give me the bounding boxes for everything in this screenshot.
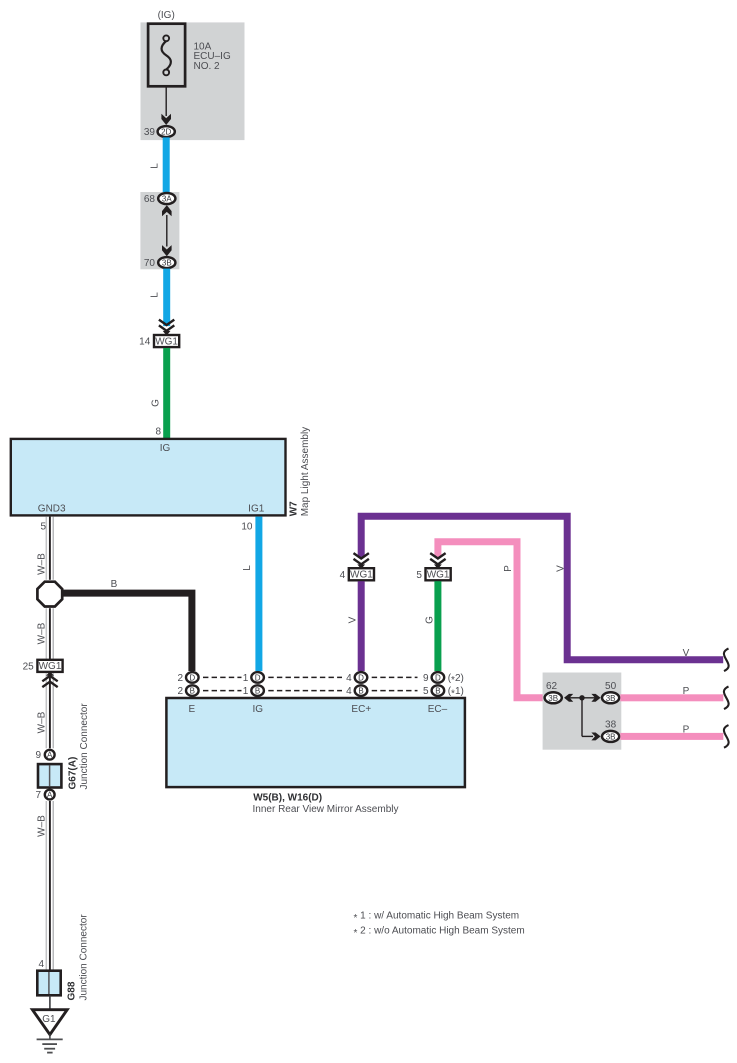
connector D pin 1 (IG) bbox=[243, 672, 264, 684]
fuse 10A ECU-IG NO. 2 bbox=[148, 24, 231, 87]
svg-text:W–B: W–B bbox=[37, 711, 48, 733]
connector WG1 pin 5 bbox=[416, 568, 450, 581]
splice octagon bbox=[37, 582, 62, 607]
wire W-B GND3 to splice bbox=[46, 517, 53, 580]
wire G (green) WG1 to EC- bbox=[434, 581, 441, 671]
svg-text:Inner Rear View Mirror Assembl: Inner Rear View Mirror Assembly bbox=[253, 804, 399, 815]
svg-text:1: 1 bbox=[243, 673, 249, 684]
dashes IG to EC+ bbox=[268, 676, 342, 678]
svg-text:2: 2 bbox=[177, 686, 183, 697]
svg-text:WG1: WG1 bbox=[427, 570, 450, 581]
svg-text:D: D bbox=[189, 673, 195, 682]
svg-text:A: A bbox=[47, 751, 53, 760]
svg-text:V: V bbox=[348, 616, 359, 623]
Map Light Assembly box W7 bbox=[11, 439, 286, 516]
wire W-B splice to WG1 25 bbox=[46, 608, 53, 659]
svg-text:P: P bbox=[503, 565, 514, 572]
connector 3B pin 70 bbox=[144, 257, 176, 269]
connector B pin 2 (E) bbox=[177, 685, 198, 697]
svg-text:D: D bbox=[255, 673, 261, 682]
wire L (blue) 2D to 3A bbox=[163, 137, 170, 192]
svg-text:B: B bbox=[190, 687, 195, 696]
dashes EC+ to EC- bbox=[372, 676, 418, 678]
wire from fuse to 2D bbox=[165, 87, 167, 116]
svg-text:4: 4 bbox=[346, 673, 352, 684]
svg-text:38: 38 bbox=[605, 720, 617, 731]
svg-text:G: G bbox=[425, 616, 436, 624]
svg-text:62: 62 bbox=[546, 681, 558, 692]
svg-text:NO. 2: NO. 2 bbox=[194, 61, 221, 72]
svg-text:10: 10 bbox=[241, 521, 253, 532]
svg-text:7: 7 bbox=[35, 790, 41, 801]
svg-text:70: 70 bbox=[144, 258, 156, 269]
wire G (green) WG1 to map light bbox=[163, 348, 170, 439]
wire P (pink) 38 to right bbox=[620, 733, 723, 740]
svg-text:W–B: W–B bbox=[37, 553, 48, 575]
fuse block gray background bbox=[141, 22, 245, 140]
connector WG1 pin 25 bbox=[23, 660, 63, 673]
chevron arrows into WG1 14 bbox=[159, 320, 174, 336]
svg-text:IG1: IG1 bbox=[248, 503, 265, 514]
svg-text:W–B: W–B bbox=[37, 815, 48, 837]
svg-text:4: 4 bbox=[346, 686, 352, 697]
svg-text:3B: 3B bbox=[548, 694, 558, 703]
svg-text:L: L bbox=[150, 292, 161, 298]
svg-text:2: 2 bbox=[177, 673, 183, 684]
svg-text:4: 4 bbox=[38, 959, 44, 970]
svg-text:(IG): (IG) bbox=[158, 10, 175, 21]
svg-text:G88: G88 bbox=[66, 981, 77, 1000]
wire B (black) splice to E pin bbox=[62, 593, 192, 671]
svg-text:WG1: WG1 bbox=[155, 336, 178, 347]
break symbol P wire 2 bbox=[724, 725, 729, 748]
svg-text:W5(B), W16(D): W5(B), W16(D) bbox=[253, 793, 322, 804]
svg-text:Junction Connector: Junction Connector bbox=[78, 914, 89, 1001]
svg-text:3B: 3B bbox=[606, 733, 616, 742]
svg-text:IG: IG bbox=[160, 443, 171, 454]
break symbol P wire 1 bbox=[724, 687, 729, 710]
svg-text:W–B: W–B bbox=[37, 622, 48, 644]
svg-text:D: D bbox=[358, 673, 364, 682]
chevron arrows into WG1 4 bbox=[354, 553, 369, 569]
svg-text:V: V bbox=[555, 565, 566, 572]
wire P (pink) 50 to right bbox=[620, 694, 723, 701]
svg-text:B: B bbox=[111, 579, 118, 590]
connector B pin 5 (EC-) bbox=[423, 685, 464, 699]
chevron arrows out of WG1 25 bbox=[42, 671, 57, 687]
chevron arrows into WG1 5 bbox=[430, 553, 445, 569]
svg-text:L: L bbox=[242, 565, 253, 571]
arrows between 3A and 3B bbox=[162, 205, 172, 256]
svg-text:2D: 2D bbox=[161, 128, 171, 137]
svg-text:D: D bbox=[435, 673, 441, 682]
Inner Rear View Mirror Assembly box bbox=[166, 698, 465, 787]
svg-text:68: 68 bbox=[144, 194, 156, 205]
connector 9 A bbox=[35, 750, 54, 761]
dashes E to IG bbox=[203, 676, 242, 678]
svg-text:WG1: WG1 bbox=[39, 661, 62, 672]
svg-text:3B: 3B bbox=[606, 694, 616, 703]
gray background 3A/3B bbox=[140, 192, 179, 269]
svg-text:Map Light Assembly: Map Light Assembly bbox=[300, 427, 311, 517]
wire L (blue) 3B to WG1 bbox=[163, 269, 170, 327]
connector D pin 4 (EC+) bbox=[346, 672, 367, 684]
connector 3A pin 68 bbox=[144, 193, 176, 205]
svg-text:Junction Connector: Junction Connector bbox=[79, 703, 90, 790]
svg-text:9: 9 bbox=[35, 750, 41, 761]
junction connector G67(A) bbox=[38, 764, 61, 787]
svg-text:25: 25 bbox=[23, 661, 35, 672]
svg-text:5: 5 bbox=[40, 521, 46, 532]
svg-text:3B: 3B bbox=[162, 259, 172, 268]
connector WG1 pin 14 bbox=[139, 335, 179, 348]
connector B pin 1 (IG) bbox=[243, 685, 264, 697]
svg-text:14: 14 bbox=[139, 337, 151, 348]
svg-text:P: P bbox=[683, 686, 690, 697]
connector 3B pin 62 bbox=[545, 681, 562, 703]
wire V (purple) WG1 to EC+ bbox=[358, 581, 365, 671]
svg-text:9: 9 bbox=[423, 673, 429, 684]
junction connector G88 bbox=[37, 971, 60, 996]
svg-text:G1: G1 bbox=[42, 1014, 56, 1025]
svg-text:5: 5 bbox=[416, 570, 422, 581]
svg-text:5: 5 bbox=[423, 686, 429, 697]
wire W-B 7A to G88 bbox=[46, 801, 53, 971]
connector 2D pin 39 bbox=[144, 126, 175, 138]
svg-text:E: E bbox=[188, 704, 195, 715]
svg-text:V: V bbox=[683, 648, 690, 659]
svg-text:L: L bbox=[150, 163, 161, 169]
svg-text:B: B bbox=[435, 687, 440, 696]
svg-text:A: A bbox=[47, 791, 53, 800]
break symbol V wire bbox=[724, 649, 729, 672]
svg-text:IG: IG bbox=[253, 704, 264, 715]
svg-text:8: 8 bbox=[155, 427, 161, 438]
wire G88 to ground bbox=[49, 996, 51, 1011]
svg-text:P: P bbox=[683, 724, 690, 735]
connector WG1 pin 4 bbox=[340, 568, 374, 581]
junction arrows and dot bbox=[564, 694, 601, 740]
svg-text:G: G bbox=[151, 399, 162, 407]
svg-text:39: 39 bbox=[144, 127, 156, 138]
svg-text:B: B bbox=[255, 687, 260, 696]
svg-text:3A: 3A bbox=[162, 195, 172, 204]
svg-text:W7: W7 bbox=[288, 501, 299, 516]
svg-text:GND3: GND3 bbox=[38, 503, 66, 514]
svg-text:WG1: WG1 bbox=[350, 570, 373, 581]
wire L (blue) IG1 to mirror IG bbox=[255, 517, 262, 672]
connector B pin 4 (EC+) bbox=[346, 685, 367, 697]
svg-text:G67(A): G67(A) bbox=[67, 757, 78, 790]
connector 3B pin 38 bbox=[602, 720, 619, 742]
svg-text:50: 50 bbox=[605, 681, 617, 692]
gray background 3B junction bbox=[543, 673, 622, 750]
wire V (purple) main run bbox=[361, 516, 723, 660]
svg-text:4: 4 bbox=[340, 570, 346, 581]
connector D pin 9 (EC-) bbox=[423, 672, 464, 686]
connector 7 A bbox=[35, 790, 54, 801]
ground G1 bbox=[32, 1010, 67, 1053]
svg-text:1: 1 bbox=[243, 686, 249, 697]
svg-text:EC+: EC+ bbox=[351, 704, 371, 715]
wire P (pink) main run bbox=[438, 542, 544, 698]
connector 3B pin 50 bbox=[602, 681, 619, 703]
svg-text:B: B bbox=[358, 687, 363, 696]
connector D pin 2 (E) bbox=[177, 672, 198, 684]
wire W-B WG1 to 9A bbox=[46, 673, 53, 748]
svg-text:EC–: EC– bbox=[428, 704, 448, 715]
